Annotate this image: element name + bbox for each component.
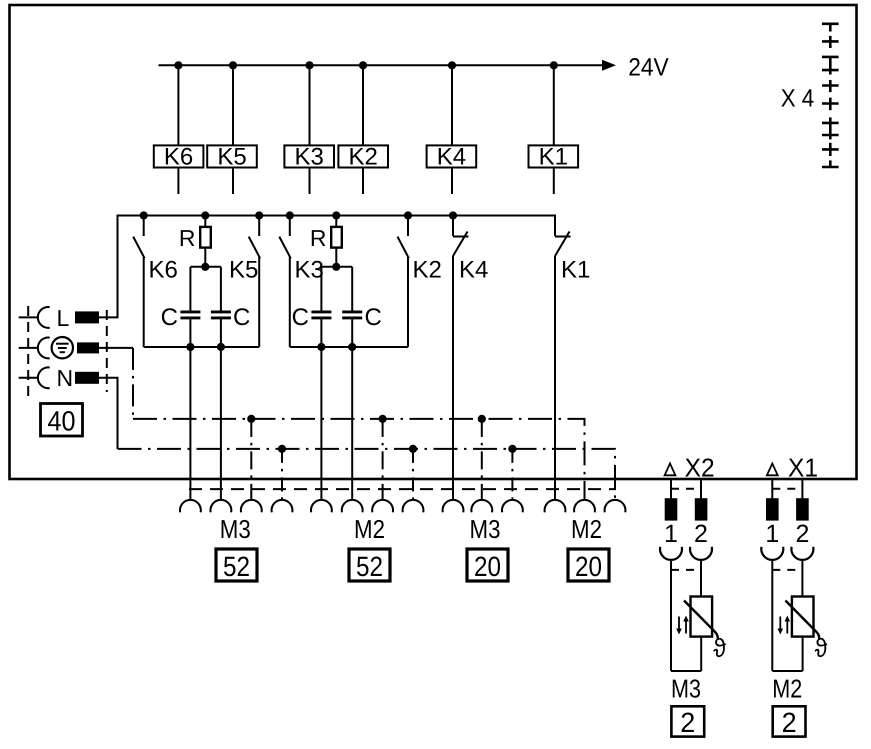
plug contact G2-1	[311, 500, 332, 512]
svg-text:24V: 24V	[628, 54, 669, 82]
relay coil K1	[529, 144, 579, 195]
label box 52 group1	[216, 549, 257, 582]
svg-text:2: 2	[782, 707, 797, 738]
terminal L	[19, 305, 119, 331]
wire capacitor bar group2	[321, 266, 352, 268]
socket contact X2-2	[690, 547, 712, 560]
junction bus-K3	[286, 211, 294, 219]
plug contact G1-2	[211, 500, 232, 512]
wire PE drop G1	[250, 419, 252, 500]
svg-text:K2: K2	[413, 257, 442, 284]
junction bus-R1	[201, 211, 209, 219]
svg-text:K3: K3	[295, 144, 324, 171]
wire G2 terminal 2	[351, 347, 353, 500]
svg-text:R: R	[310, 225, 327, 251]
svg-text:K4: K4	[437, 144, 466, 171]
relay coil K5	[207, 144, 257, 195]
contact K5	[229, 216, 260, 348]
connector X1 marker triangle	[767, 464, 778, 476]
dashed coupling line right	[106, 310, 108, 392]
terminal N	[19, 365, 119, 391]
socket contact X1-2	[791, 547, 813, 560]
junction bus-K2	[404, 211, 412, 219]
junction rail-K6	[174, 61, 182, 69]
junction rail-K1	[550, 61, 558, 69]
svg-text:R: R	[179, 225, 196, 251]
relay coil K4	[427, 144, 477, 195]
socket contact X1-1	[761, 547, 783, 560]
contact K1	[555, 232, 590, 501]
svg-text:M2: M2	[772, 674, 802, 704]
svg-text:K5: K5	[217, 144, 246, 171]
capacitor C (group2 right)	[342, 267, 382, 347]
24V arrowhead	[602, 60, 616, 71]
airflow arrows M3	[676, 616, 689, 635]
junction bus-R2	[332, 211, 340, 219]
junction PE-line G2	[379, 415, 387, 423]
wire rail to coil K6	[177, 65, 179, 145]
junction N-line G3	[508, 445, 516, 453]
theta symbol M2	[810, 633, 833, 664]
contact K4	[453, 216, 488, 501]
wire PE drop G3	[481, 419, 483, 500]
dashed coupling line left	[27, 306, 29, 397]
plug contact G2-4	[403, 500, 424, 512]
plug contact G3-2	[471, 500, 492, 512]
wire group1 bottom	[144, 346, 260, 348]
wire rail to coil K3	[309, 65, 311, 145]
svg-text:2: 2	[795, 520, 809, 548]
label box 52 group2	[349, 549, 390, 582]
junction bus-K4	[449, 211, 457, 219]
24V supply rail	[159, 64, 604, 66]
svg-text:C: C	[365, 304, 382, 331]
relay coil K2	[338, 144, 388, 195]
svg-text:C: C	[233, 304, 250, 331]
svg-text:40: 40	[48, 406, 76, 437]
wire rail to coil K2	[362, 65, 364, 145]
svg-text:1: 1	[765, 520, 779, 548]
capacitor C (group1 right)	[211, 267, 250, 347]
label box 20 group4	[568, 549, 609, 582]
enclosure frame	[10, 5, 857, 479]
svg-text:52: 52	[356, 551, 383, 582]
svg-text:K6: K6	[164, 144, 193, 171]
svg-text:K2: K2	[349, 144, 378, 171]
wire N drop G1	[281, 449, 283, 500]
capacitor C (group1 left)	[161, 267, 201, 347]
junction PE-line G1	[247, 415, 255, 423]
label box 2 sensor M2	[773, 706, 806, 738]
wire rail to coil K1	[553, 65, 555, 145]
plug contact G4-1	[545, 500, 566, 512]
connector X1 pin 1	[766, 498, 779, 520]
svg-text:K6: K6	[149, 257, 178, 284]
connector X2 pin 2	[695, 498, 708, 520]
contact K6	[133, 216, 178, 348]
sensor M3 wiring	[671, 560, 701, 671]
connector X4 terminal strip	[822, 24, 839, 167]
contact K3	[279, 216, 324, 348]
junction rail-K5	[229, 61, 237, 69]
connector X1 pin stubs	[772, 480, 802, 500]
contact bus wire	[118, 216, 556, 318]
svg-text:2: 2	[694, 520, 708, 548]
svg-text:1: 1	[664, 520, 678, 548]
wire G1 terminal 2	[220, 347, 222, 500]
connector X2 marker triangle	[665, 464, 676, 476]
junction R2-capacitors	[332, 263, 340, 271]
svg-text:52: 52	[223, 551, 250, 582]
wire N drop G3	[511, 449, 513, 500]
plug contact G1-4	[272, 500, 293, 512]
junction N-line G2	[409, 445, 417, 453]
junction N-line G1	[278, 445, 286, 453]
terminal PE	[19, 337, 133, 358]
connector X1 pin 2	[796, 498, 809, 520]
svg-text:M2: M2	[571, 514, 602, 544]
svg-text:M3: M3	[220, 514, 251, 544]
plug contact G4-3	[605, 500, 626, 512]
svg-text:K4: K4	[459, 257, 488, 284]
N dash-dot line	[118, 449, 616, 500]
svg-text:2: 2	[680, 707, 695, 738]
svg-text:M3: M3	[671, 674, 701, 704]
wire N drop G2	[412, 449, 414, 500]
plug contact G3-1	[443, 500, 464, 512]
connector X2 pin stubs	[671, 480, 701, 500]
svg-text:20: 20	[575, 551, 602, 582]
svg-text:C: C	[161, 304, 178, 331]
label box 40	[41, 404, 83, 437]
relay coil K3	[284, 144, 334, 195]
capacitor C (group2 left)	[292, 267, 332, 347]
junction group2 left	[317, 343, 325, 351]
relay coil K6	[154, 144, 204, 195]
junction rail-K3	[305, 61, 313, 69]
plug contact G1-3	[241, 500, 262, 512]
wire capacitor bar group1	[190, 266, 221, 268]
plug contact G2-2	[342, 500, 363, 512]
plug contact G1-1	[180, 500, 201, 512]
socket contact X2-1	[660, 547, 682, 560]
label box 20 group3	[467, 549, 508, 582]
wire rail to coil K5	[232, 65, 234, 145]
wire PE drop G2	[382, 419, 384, 500]
PE dash-dot line	[133, 419, 585, 500]
plug contact G4-2	[574, 500, 595, 512]
wire rail to coil K4	[451, 65, 453, 145]
svg-text:20: 20	[474, 551, 501, 582]
junction group2 right	[348, 343, 356, 351]
junction rail-K2	[359, 61, 367, 69]
junction group1 left	[186, 343, 194, 351]
airflow arrows M2	[778, 616, 791, 635]
svg-text:L: L	[57, 305, 70, 331]
svg-text:K1: K1	[561, 257, 590, 284]
junction bus-K5	[255, 211, 263, 219]
junction group1 right	[217, 343, 225, 351]
svg-text:K5: K5	[229, 257, 258, 284]
junction bus-K6	[140, 211, 148, 219]
svg-text:X2: X2	[685, 453, 715, 483]
contact K2	[398, 216, 442, 348]
svg-text:M3: M3	[470, 514, 501, 544]
label box 2 sensor M3	[671, 706, 704, 738]
resistor R2	[310, 216, 342, 267]
resistor R1	[179, 216, 211, 267]
sensor M2 wiring	[772, 560, 802, 671]
theta symbol M3	[709, 633, 732, 664]
plug contact G3-3	[502, 500, 523, 512]
wire PE drop (dash-dot)	[132, 348, 134, 419]
svg-text:K3: K3	[295, 257, 324, 284]
dashed separation line	[189, 488, 616, 490]
plug contact G2-3	[372, 500, 393, 512]
thermistor M3	[684, 597, 718, 640]
svg-text:N: N	[57, 365, 74, 391]
svg-text:X1: X1	[788, 453, 818, 483]
wire group2 bottom	[290, 346, 408, 348]
thermistor M2	[785, 597, 819, 640]
wire G2 terminal 1	[320, 347, 322, 500]
junction rail-K4	[448, 61, 456, 69]
wire G1 terminal 1	[189, 347, 191, 500]
svg-text:C: C	[292, 304, 309, 331]
svg-text:M2: M2	[354, 514, 385, 544]
wire N drop	[117, 378, 119, 449]
junction PE-line G3	[478, 415, 486, 423]
connector X2 pin 1	[665, 498, 678, 520]
svg-text:K1: K1	[539, 144, 568, 171]
junction R1-capacitors	[201, 263, 209, 271]
svg-text:X 4: X 4	[781, 84, 815, 112]
